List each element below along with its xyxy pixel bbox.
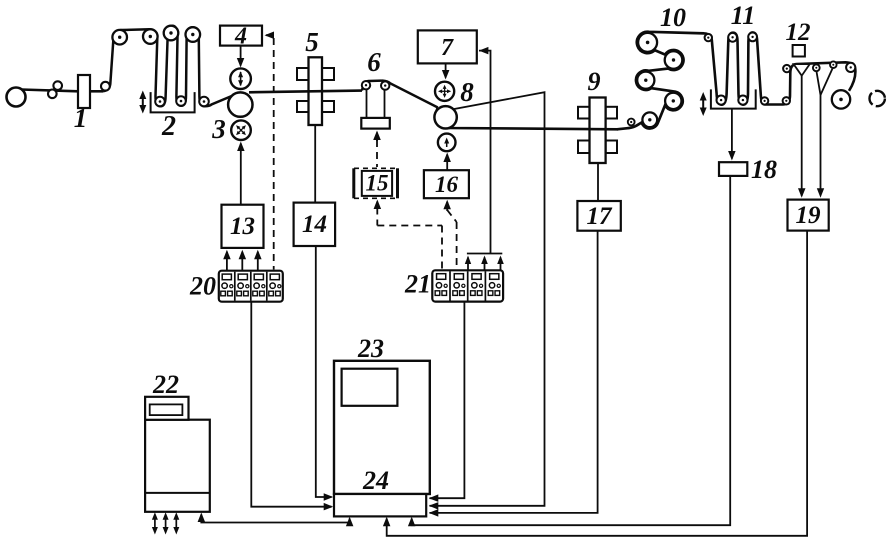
svg-text:2: 2 bbox=[161, 111, 176, 142]
svg-text:15: 15 bbox=[366, 171, 389, 196]
svg-text:10: 10 bbox=[660, 3, 686, 32]
svg-text:22: 22 bbox=[152, 370, 179, 399]
svg-text:12: 12 bbox=[786, 19, 811, 46]
svg-text:5: 5 bbox=[305, 27, 319, 57]
svg-text:13: 13 bbox=[230, 213, 255, 240]
svg-text:9: 9 bbox=[588, 67, 601, 96]
svg-text:4: 4 bbox=[234, 24, 247, 50]
svg-text:17: 17 bbox=[587, 203, 614, 230]
svg-text:18: 18 bbox=[751, 155, 777, 184]
svg-text:24: 24 bbox=[362, 466, 389, 495]
svg-text:7: 7 bbox=[441, 35, 454, 61]
svg-text:23: 23 bbox=[357, 334, 384, 363]
svg-text:6: 6 bbox=[367, 47, 381, 77]
svg-text:19: 19 bbox=[796, 202, 822, 229]
svg-text:20: 20 bbox=[189, 272, 216, 301]
svg-text:3: 3 bbox=[211, 114, 226, 144]
svg-text:11: 11 bbox=[731, 1, 756, 30]
svg-text:14: 14 bbox=[302, 211, 327, 238]
svg-text:8: 8 bbox=[460, 77, 474, 107]
svg-text:21: 21 bbox=[404, 270, 431, 299]
svg-text:16: 16 bbox=[435, 172, 459, 197]
svg-text:1: 1 bbox=[74, 103, 88, 133]
